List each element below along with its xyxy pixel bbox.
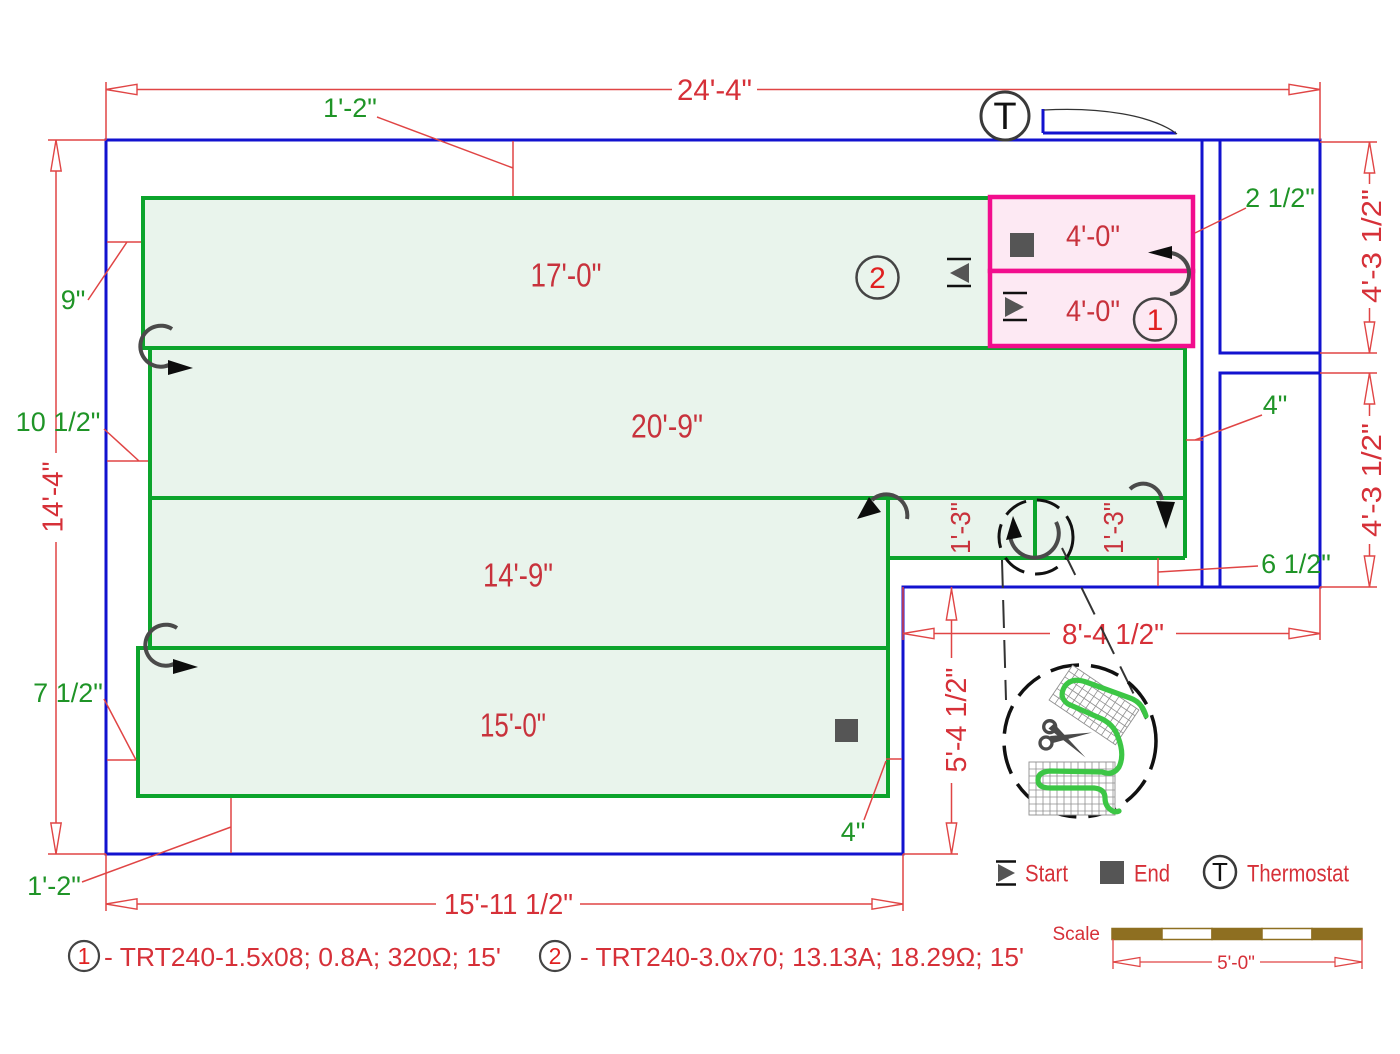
strip A left edge	[141, 196, 145, 348]
turn arrow mats A/B left	[140, 326, 193, 375]
svg-text:4'-0": 4'-0"	[1066, 220, 1120, 253]
strip right edge x=1185	[1183, 346, 1187, 558]
product note 1	[69, 941, 99, 971]
svg-text:1: 1	[1147, 304, 1164, 337]
wall: left	[105, 139, 108, 856]
scale bar	[1112, 929, 1362, 940]
end marker square (pink strip 1)	[1010, 233, 1034, 257]
strip D bottom edge	[136, 794, 890, 798]
mat C/D right edge x=888	[886, 498, 890, 796]
arrow 4'-3 1/2" u2 down	[1364, 556, 1374, 587]
circled number 2	[857, 257, 899, 299]
arrow 8'-4 1/2" right	[1289, 628, 1320, 638]
turn arrow inside dashed circle	[1006, 516, 1059, 558]
legend start symbol	[996, 862, 1016, 885]
svg-text:Thermostat: Thermostat	[1247, 861, 1349, 888]
dim 15'-11 1/2" line	[106, 903, 903, 905]
arrow 15'-11 1/2" left	[106, 899, 137, 909]
WALLS	[105, 109, 1322, 856]
narrow strip bottom edge	[886, 556, 1185, 560]
turn arrow mats C/D left	[145, 625, 198, 674]
arrow 5'-4 1/2" down	[946, 823, 956, 854]
dim 8'-4 1/2" line	[903, 633, 1320, 635]
leader 6 1/2"	[1158, 558, 1258, 586]
turn arrow strip right end	[1130, 484, 1175, 529]
svg-text:4": 4"	[841, 817, 866, 847]
svg-text:2 1/2": 2 1/2"	[1245, 183, 1315, 213]
dashed circle around cut point	[999, 500, 1073, 574]
svg-text:2: 2	[869, 262, 886, 295]
svg-text:14'-4": 14'-4"	[38, 462, 70, 533]
svg-text:Scale: Scale	[1052, 924, 1100, 945]
svg-text:- TRT240-3.0x70; 13.13A; 18.29: - TRT240-3.0x70; 13.13A; 18.29Ω; 15'	[580, 942, 1024, 972]
strip A top edge	[143, 196, 991, 200]
thermostat symbol on wall	[981, 92, 1029, 140]
arrow 4'-3 1/2" u1 up	[1364, 142, 1374, 173]
svg-text:20'-9": 20'-9"	[631, 408, 703, 445]
dim 5'-4 1/2" extension	[903, 853, 958, 855]
wall: notch vertical	[902, 586, 905, 855]
dim 8'-4 1/2" extensions	[903, 587, 1320, 640]
svg-text:9": 9"	[61, 285, 86, 315]
dim 24'-4" extensions	[106, 82, 1320, 140]
detail: lower mat patch (grid)	[1029, 762, 1115, 815]
svg-text:1'-3": 1'-3"	[1098, 502, 1129, 554]
heating mat 2 fill: strip A (17'-0")	[143, 198, 991, 348]
narrow strip divider	[1033, 498, 1037, 558]
svg-text:T: T	[1212, 857, 1228, 887]
svg-text:15'-0": 15'-0"	[480, 707, 546, 744]
arrow 24'-4" left	[106, 84, 137, 94]
svg-text:6 1/2": 6 1/2"	[1261, 549, 1331, 579]
svg-text:4'-3 1/2": 4'-3 1/2"	[1356, 189, 1387, 303]
heating mat 2 fill: strip B (20'-9")	[150, 348, 1185, 498]
svg-text:5'-0": 5'-0"	[1217, 953, 1255, 974]
svg-text:2: 2	[549, 943, 562, 969]
green gap labels with leaders	[82, 117, 1262, 882]
svg-text:Start: Start	[1025, 861, 1068, 888]
heating mat 1 (pink) strip 2	[990, 271, 1193, 346]
svg-text:7 1/2": 7 1/2"	[33, 678, 103, 708]
legend end symbol	[1100, 861, 1124, 884]
arrow 8'-4 1/2" left	[903, 628, 934, 638]
strip B/C left edge	[148, 348, 152, 648]
svg-text:24'-4": 24'-4"	[677, 74, 752, 107]
dim 15'-11 1/2" extensions	[106, 854, 903, 911]
heating mat 2 fill: narrow strip (1'-3")	[888, 498, 1185, 558]
svg-text:5'-4 1/2": 5'-4 1/2"	[941, 668, 973, 773]
detail: scissors	[1040, 721, 1092, 758]
svg-text:- TRT240-1.5x08; 0.8A; 320Ω; 1: - TRT240-1.5x08; 0.8A; 320Ω; 15'	[104, 942, 501, 972]
heating mat 2 fill: strip C (14'-9")	[150, 498, 888, 648]
wall: notch horizontal	[903, 586, 1322, 589]
dim 4'-3 1/2" upper extensions	[1320, 142, 1377, 353]
svg-text:1'-3": 1'-3"	[945, 502, 976, 554]
detail: upper mat patch (rotated grid)	[1049, 665, 1139, 745]
start marker (mat strip A, pointing left)	[947, 259, 971, 286]
circled number 1	[1134, 299, 1176, 341]
leader 10 1/2"	[104, 429, 148, 461]
dim 4'-3 1/2" lower line	[1369, 373, 1371, 587]
turn arrow pink mats	[1148, 246, 1189, 294]
wall: right	[1319, 139, 1322, 589]
wall: bottom	[105, 853, 905, 856]
arrow 14'-4" down	[51, 823, 61, 854]
svg-text:4'-0": 4'-0"	[1066, 295, 1120, 328]
wall: inner vertical	[1201, 140, 1204, 587]
svg-text:4": 4"	[1263, 390, 1288, 420]
arrow 4'-3 1/2" u1 down	[1364, 322, 1374, 353]
strip D left edge	[136, 646, 140, 796]
strip B/C boundary	[148, 496, 1185, 500]
detail circle (dashed)	[1004, 665, 1156, 817]
svg-text:8'-4 1/2": 8'-4 1/2"	[1062, 619, 1164, 651]
svg-text:4'-3 1/2": 4'-3 1/2"	[1356, 423, 1387, 537]
arrow 5'-4 1/2" up	[946, 589, 956, 620]
scale dimension 5'-0"	[1113, 939, 1362, 969]
closet lower	[1220, 373, 1320, 587]
dim 14'-4" extensions	[48, 140, 106, 854]
strip C/D boundary	[138, 646, 888, 650]
arrow 14'-4" up	[51, 140, 61, 171]
dashed leader to detail (vertical)	[1002, 560, 1006, 700]
svg-text:T: T	[993, 96, 1016, 138]
product note 2	[540, 941, 570, 971]
leader 2 1/2"	[1195, 208, 1246, 233]
door swing arc	[1044, 109, 1177, 134]
svg-text:1: 1	[78, 943, 91, 969]
heating mat 2 fill: strip D (15'-0")	[138, 648, 888, 796]
heating mat 1 (pink) strip 1	[990, 197, 1193, 271]
leader 4" right	[1186, 415, 1262, 440]
svg-text:15'-11 1/2": 15'-11 1/2"	[444, 889, 573, 921]
door leaf	[1043, 109, 1176, 133]
closet upper	[1220, 140, 1320, 353]
wall: top	[105, 139, 1322, 142]
dim 24'-4" line	[106, 89, 1320, 91]
leader 4" bottom	[864, 759, 902, 820]
arrow 24'-4" right	[1289, 84, 1320, 94]
start marker (pink strip 2, pointing right)	[1003, 293, 1027, 320]
turn arrow mat B/C right (x=888)	[857, 494, 907, 519]
leader 9"	[88, 242, 141, 300]
arrow 15'-11 1/2" right	[872, 899, 903, 909]
arrow 4'-3 1/2" u2 up	[1364, 373, 1374, 404]
svg-text:10 1/2": 10 1/2"	[16, 407, 101, 437]
svg-text:1'-2": 1'-2"	[323, 93, 377, 123]
leader 1'-2" bottom	[82, 798, 231, 882]
strip A/B boundary	[141, 346, 1185, 350]
svg-text:End: End	[1134, 861, 1170, 888]
dim 4'-3 1/2" upper line	[1369, 142, 1371, 353]
legend thermostat symbol	[1204, 856, 1236, 888]
svg-text:14'-9": 14'-9"	[483, 557, 553, 594]
leader 7 1/2"	[104, 699, 136, 760]
detail: green heating cable serpentine	[1038, 680, 1146, 812]
dim 4'-3 1/2" lower extensions	[1320, 373, 1377, 587]
DIMS	[48, 82, 1377, 911]
dashed leader to detail (diagonal)	[1062, 548, 1146, 719]
svg-text:1'-2": 1'-2"	[27, 871, 81, 901]
svg-text:17'-0": 17'-0"	[531, 257, 602, 294]
dimension arrowheads (outline)	[51, 84, 1375, 909]
end marker square (mat strip D)	[835, 719, 858, 742]
mat 2 green outline	[136, 196, 1185, 796]
dim 14'-4" line	[55, 140, 57, 854]
dim 5'-4 1/2" line	[951, 587, 953, 854]
leader 1'-2" top	[377, 117, 513, 196]
